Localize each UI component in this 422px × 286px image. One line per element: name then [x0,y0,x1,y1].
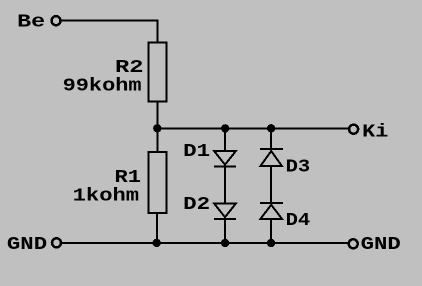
terminal Be [52,16,61,25]
svg-text:R2: R2 [115,58,144,78]
node A junction dot [153,124,161,132]
resistor R2 [148,43,166,102]
terminal GND left [52,238,61,247]
diode D4 [260,203,283,219]
svg-text:1kohm: 1kohm [73,187,140,207]
resistor R1 [148,152,166,213]
junction dot R1 to ground rail [153,239,161,247]
wire Be to R2 top [61,21,158,43]
wire top rail to diode D1 anode [224,128,226,151]
diode D2 [214,204,236,220]
wire R1 bottom to ground rail [156,213,158,243]
wire D2 cathode to ground rail [224,219,226,243]
junction dot D4 branch to ground rail [267,239,275,247]
svg-text:GND: GND [7,235,47,255]
wire D4 anode to ground rail [270,219,272,243]
svg-text:Be: Be [17,12,45,32]
svg-text:D4: D4 [286,211,311,231]
terminal Ki [349,125,358,134]
svg-text:GND: GND [361,235,401,255]
svg-text:D3: D3 [286,158,311,178]
wire node A to terminal Ki [157,127,349,129]
wire top rail to diode D3 cathode [270,128,272,149]
svg-text:D2: D2 [183,195,210,215]
wire D1 cathode to D2 anode [224,166,226,203]
svg-text:99kohm: 99kohm [63,77,142,97]
diode D3 [260,149,283,166]
wire R2 bottom to node A [156,101,158,128]
svg-text:R1: R1 [115,168,142,188]
ground rail wire [61,242,349,244]
svg-text:D1: D1 [183,142,210,162]
wire node A to R1 top [156,128,158,152]
junction dot D2 branch to ground rail [221,239,229,247]
wire D3 anode to D4 cathode [270,166,272,203]
terminal GND right [349,239,358,248]
junction dot top of D3 branch [267,124,275,132]
junction dot top of D1 branch [221,124,229,132]
diode D1 [214,151,236,166]
svg-text:Ki: Ki [362,122,388,142]
